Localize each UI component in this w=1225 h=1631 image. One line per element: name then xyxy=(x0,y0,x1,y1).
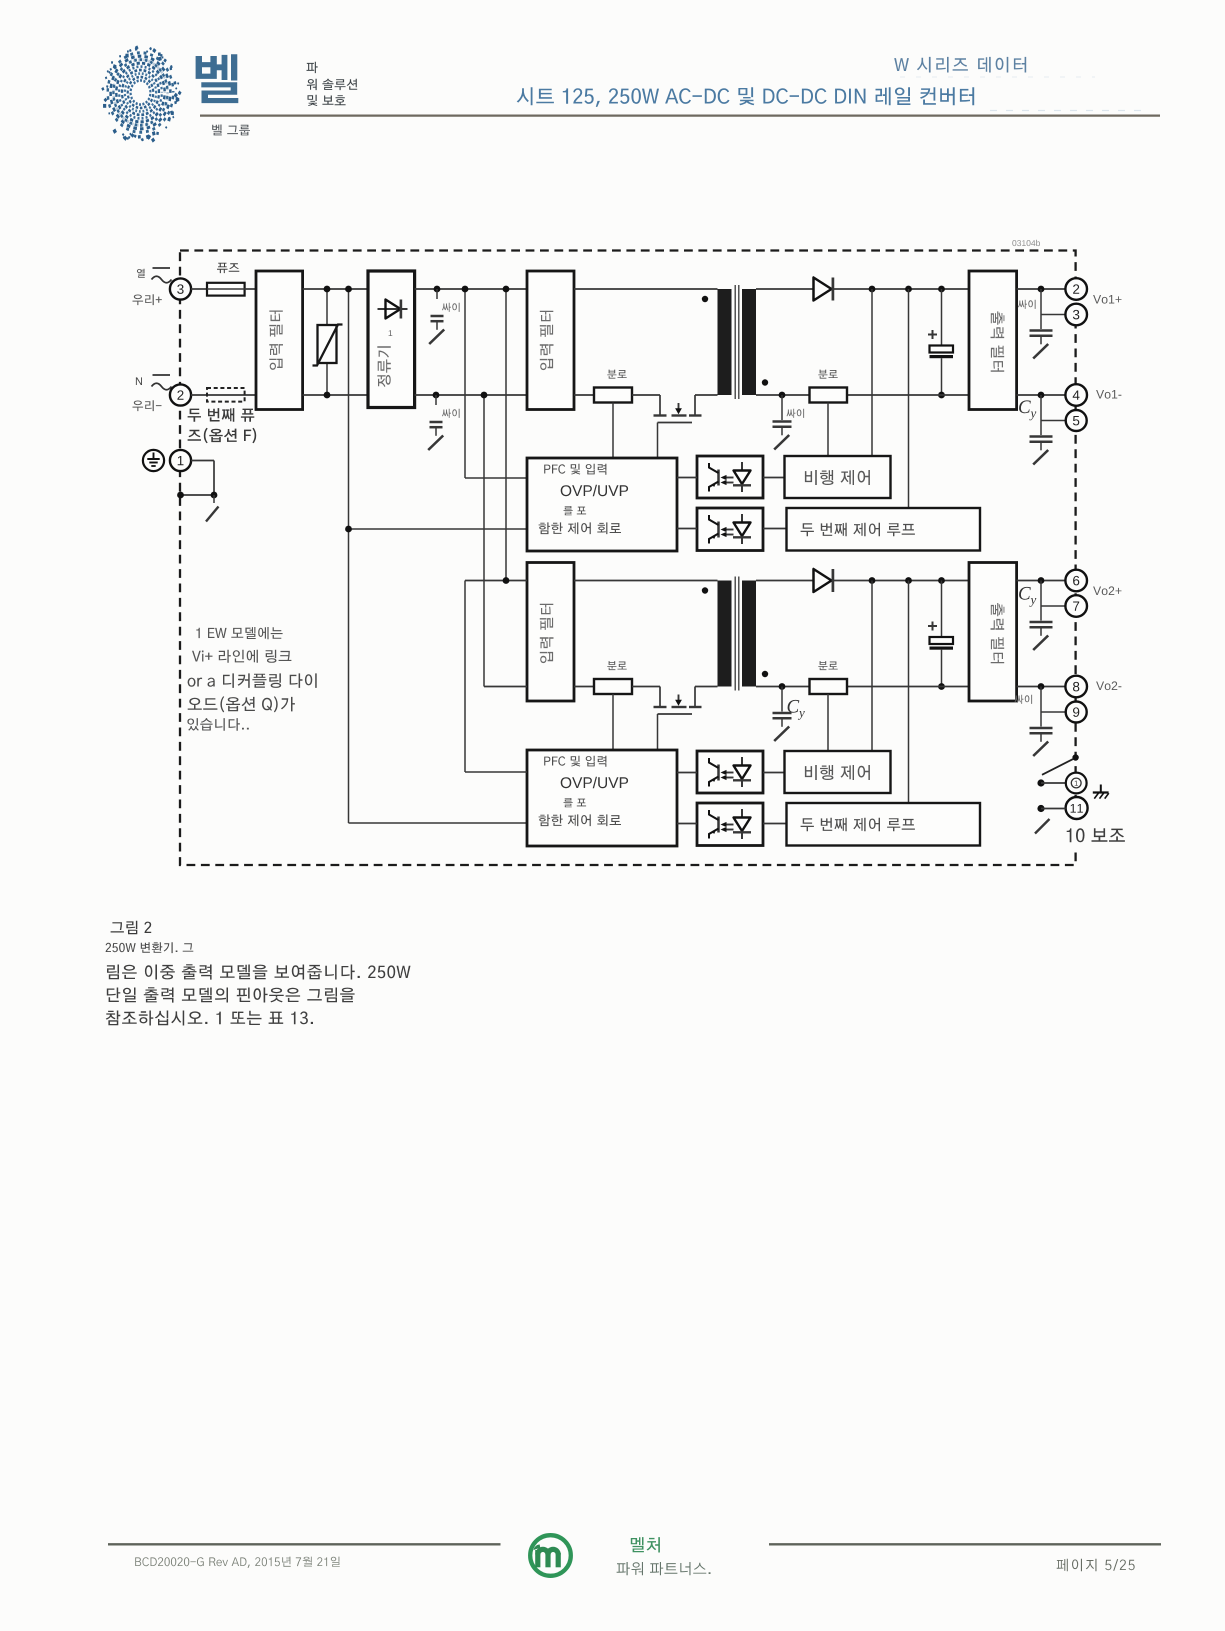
wire: bus to flyback control ch1 xyxy=(871,289,873,456)
wire: shunt to mosfet ch2 xyxy=(632,686,660,688)
shunt resistor primary ch2 xyxy=(594,679,632,694)
case connect switch xyxy=(206,495,219,522)
flyback control box ch2 xyxy=(785,751,891,793)
enclosure dashed border xyxy=(180,251,1076,866)
label Cy output+ ch2 xyxy=(1019,587,1036,607)
footer rule left xyxy=(108,1543,501,1545)
doc title xyxy=(517,87,975,107)
terminal 4 xyxy=(1065,384,1087,406)
Y-cap to case (top bus) xyxy=(429,286,444,344)
optocoupler upper xyxy=(697,456,763,498)
wire: opto to second loop ch2 xyxy=(763,823,787,825)
mosfet switch Q2 xyxy=(654,687,718,708)
wire: filter1 to rectifier top xyxy=(303,288,368,290)
input filter 1 box xyxy=(256,271,303,410)
mosfet gate wire ch1 xyxy=(658,423,693,459)
second control loop box xyxy=(787,508,981,551)
junction x348 mid xyxy=(345,526,352,533)
wire: filter to shunt ch2 xyxy=(574,686,594,688)
wire: shunt to mosfet ch1 xyxy=(632,394,660,396)
V+ bus to channel2 (x506) xyxy=(503,286,510,581)
junctions on output bus ch2 xyxy=(869,577,945,584)
label Vo2+ xyxy=(1093,586,1121,595)
wire: bus to second loop ch2 xyxy=(908,581,910,804)
Y-cap secondary to case ch2 xyxy=(773,687,792,742)
junction x348 top xyxy=(345,286,352,293)
bel logo dotted circle xyxy=(101,45,181,142)
output filter 2 box xyxy=(969,563,1017,702)
sense wire to PFC1 (x465) xyxy=(462,286,527,478)
wire: opto to second loop xyxy=(763,528,787,530)
wire: PFC to opto lower ch2 xyxy=(677,823,697,825)
Y-cap output+ ch2 xyxy=(1030,606,1053,650)
wire: PFC to opto upper ch2 xyxy=(677,772,697,774)
label shunt secondary ch2 xyxy=(818,661,837,670)
wire: diode to output filter ch1 xyxy=(833,288,969,290)
input filter 2 box xyxy=(527,271,574,410)
wire: filter to transformer primary top ch1 xyxy=(574,288,718,290)
label Cy secondary ch2 xyxy=(788,700,805,720)
label Cy output- ch1 xyxy=(1019,400,1036,420)
wire: diode to output filter ch2 xyxy=(833,580,969,582)
melcher wordmark xyxy=(631,1537,660,1552)
wire: ch2 top rail feed xyxy=(465,577,527,584)
wire: aux terminal 1 xyxy=(1037,779,1065,786)
optocoupler lower xyxy=(697,508,763,551)
shunt resistor secondary ch2 xyxy=(810,679,848,694)
AC neutral symbol N xyxy=(136,375,172,390)
junction on border (case) xyxy=(177,492,217,499)
input filter 3 box xyxy=(527,563,574,702)
shunt resistor primary ch1 xyxy=(594,388,632,403)
melcher logo xyxy=(530,1535,571,1576)
transformer T2 xyxy=(718,577,757,691)
terminal 1 (earth) xyxy=(170,450,191,471)
wire: secondary to diode ch2 xyxy=(756,580,814,582)
Y-cap output+ ch1 xyxy=(1030,315,1053,359)
junction Cy tap ch1 xyxy=(779,392,786,399)
footer document id xyxy=(135,1557,340,1568)
chassis ground symbol aux xyxy=(1093,785,1109,799)
wire: aux terminal 11 xyxy=(1037,805,1065,812)
rectifier diode D2 xyxy=(814,569,833,592)
terminal 2 (input N) xyxy=(170,384,191,405)
label second fuse option F xyxy=(188,408,257,443)
bel wordmark xyxy=(196,54,239,103)
PFC control box U2 xyxy=(527,750,677,846)
shunt resistor secondary ch1 xyxy=(810,388,848,403)
V- bus to channel2 (x484) xyxy=(481,392,488,687)
wire: ch2 PFC sense (x465) xyxy=(465,581,527,773)
transformer polarity dots T2 xyxy=(702,587,768,677)
wire: ch2 bottom rail feed xyxy=(484,686,527,688)
note: EW model link text xyxy=(187,627,316,731)
label shunt primary ch2 xyxy=(607,661,626,670)
wire: opto to flyback xyxy=(763,477,785,479)
terminal 5 xyxy=(1066,410,1087,431)
aux lower switch xyxy=(1035,819,1050,834)
terminal 1-prime (case) xyxy=(1066,773,1087,794)
Y-cap to case (bottom bus) xyxy=(428,392,443,450)
header rule xyxy=(200,114,1160,116)
label 10 aux xyxy=(1058,822,1136,850)
wire: terminal2 to input filter xyxy=(191,394,256,396)
secondary return rail ch1 xyxy=(756,394,969,396)
mosfet switch Q1 xyxy=(654,395,718,416)
wire: filter to transformer primary top ch2 xyxy=(574,580,718,582)
optocoupler lower ch2 xyxy=(697,803,763,846)
label Y-cap output+ ch1 xyxy=(1018,300,1036,309)
junction Cy tap ch2 xyxy=(779,683,786,690)
optional second fuse (option F) dashed box xyxy=(207,388,245,402)
label N- (우리-) xyxy=(133,400,162,411)
wire: rectifier to filter2 top xyxy=(415,288,527,290)
mosfet gate wire ch2 xyxy=(658,714,693,750)
wire: output+ to terminal ch2 xyxy=(1017,577,1066,606)
label Vo1- xyxy=(1096,390,1121,399)
rectifier box xyxy=(368,271,415,408)
secondary return rail ch2 xyxy=(756,686,969,688)
label Vo2- xyxy=(1096,681,1121,690)
PFC control box U1 xyxy=(527,458,677,551)
Y-cap output- ch1 xyxy=(1030,421,1053,465)
rectifier diode D1 xyxy=(814,278,833,301)
junction on border above aux xyxy=(1072,754,1078,760)
junctions on output bus ch1 xyxy=(869,286,945,293)
footer rule right xyxy=(769,1543,1161,1545)
wire: filter1 to rectifier bottom xyxy=(303,394,368,396)
terminal 7 xyxy=(1065,595,1087,617)
wire: bus to flyback control ch2 xyxy=(871,581,873,752)
Y-cap secondary to case ch1 xyxy=(773,395,792,450)
wire: secondary shunt tap to flyback control ch2 xyxy=(827,694,829,751)
wire: rectifier to filter2 bottom xyxy=(415,394,527,396)
wire: terminal1 to case switch xyxy=(181,461,214,496)
wire: PFC to opto upper xyxy=(677,477,697,479)
optocoupler upper ch2 xyxy=(697,751,763,793)
label Y-cap output- ch2 xyxy=(1015,695,1033,704)
terminal 3 (input L) xyxy=(170,278,191,299)
terminal 11 xyxy=(1066,797,1088,819)
flyback control box xyxy=(785,456,891,498)
second control loop box ch2 xyxy=(787,803,981,846)
label shunt secondary ch1 xyxy=(818,370,837,379)
terminal 9 xyxy=(1066,702,1087,723)
wire: PFC to opto lower xyxy=(677,528,697,530)
fuse F1 xyxy=(191,283,256,296)
wire: shunt tap to PFC ch1 xyxy=(612,403,614,459)
terminal 2 xyxy=(1065,278,1087,300)
electrolytic capacitor C1 xyxy=(928,289,953,398)
terminal 8 xyxy=(1065,676,1087,698)
wire: opto to flyback ch2 xyxy=(763,772,785,774)
melcher tagline xyxy=(617,1562,711,1575)
drawing number 03104b xyxy=(1012,240,1040,246)
wire: bus to second loop ch1 xyxy=(908,289,910,508)
label shunt primary ch1 xyxy=(607,370,626,379)
earth ground symbol xyxy=(143,450,164,471)
AC line symbol L xyxy=(137,268,172,283)
wire: shunt tap to PFC ch2 xyxy=(612,694,614,750)
wire: output- to terminal ch1 xyxy=(1017,392,1066,421)
wire: filter to shunt ch1 xyxy=(574,394,594,396)
label Y-cap top xyxy=(442,303,460,312)
label Y-cap secondary ch1 xyxy=(787,409,805,418)
wire: secondary to diode ch1 xyxy=(756,288,814,290)
doc type right xyxy=(894,57,1026,73)
header tagline xyxy=(307,62,358,106)
transformer polarity dots T1 xyxy=(702,296,768,386)
aux switch lever xyxy=(1042,759,1074,775)
footer page number xyxy=(1057,1559,1135,1571)
transformer T1 xyxy=(718,285,757,399)
output filter 1 box xyxy=(969,271,1017,410)
scan artifact dashes xyxy=(900,77,1150,111)
label fuse xyxy=(217,263,239,273)
terminal 6 xyxy=(1065,570,1087,592)
label Vo1+ xyxy=(1093,295,1121,304)
bel group label xyxy=(212,125,250,136)
bus wire to PFC blocks (vertical x348) xyxy=(349,289,528,823)
label L+ (우리+) xyxy=(133,294,162,305)
terminal 3 xyxy=(1065,304,1087,326)
wire: secondary shunt tap to flyback control ch1 xyxy=(827,403,829,457)
electrolytic capacitor C2 xyxy=(928,581,953,690)
label Y-cap bottom xyxy=(442,409,460,418)
varistor junctions xyxy=(324,286,331,399)
varistor RV1 xyxy=(313,289,343,395)
wire: output+ to terminal ch1 xyxy=(1017,286,1066,315)
Y-cap output- ch2 xyxy=(1030,712,1053,756)
caption figure 2 xyxy=(106,921,411,1026)
wire: output- to terminal ch2 xyxy=(1017,683,1066,712)
